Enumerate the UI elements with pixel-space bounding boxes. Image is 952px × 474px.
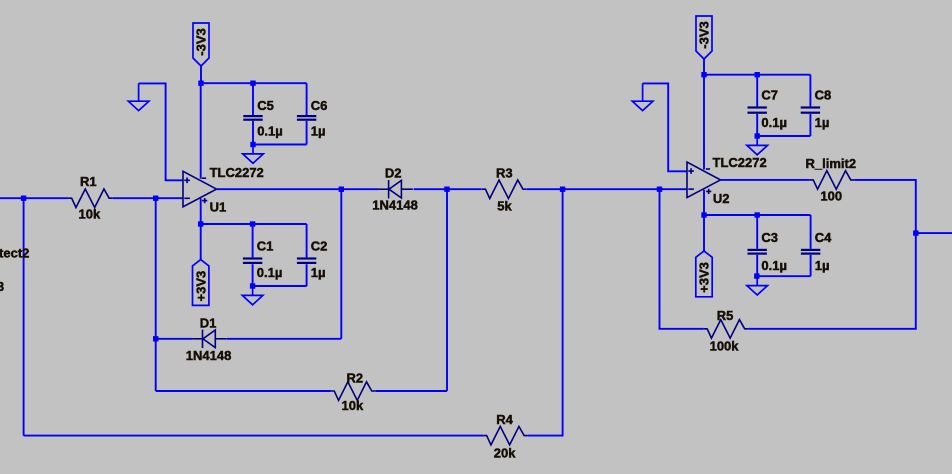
label R_limit2 <box>806 156 857 171</box>
svg-text:0.1µ: 0.1µ <box>761 258 787 273</box>
capacitor C4 <box>801 215 820 276</box>
wire R4 up to U2 input node <box>528 189 563 435</box>
label C7 <box>761 87 778 102</box>
junction R5 tap <box>657 187 662 192</box>
svg-text:R4: R4 <box>496 412 513 427</box>
value 0.1µ <box>257 124 283 139</box>
capacitor C1 <box>243 224 262 286</box>
ground under C1 <box>242 286 263 305</box>
resistor R3 <box>482 180 527 199</box>
junction +3V3 rail right <box>701 212 706 217</box>
diode D1 1N4148 <box>192 330 227 348</box>
op-amp U1 TLC2272 <box>183 171 217 207</box>
junction C7 top <box>755 72 760 77</box>
svg-text:+3V3: +3V3 <box>697 262 712 293</box>
svg-text:0.1µ: 0.1µ <box>257 124 283 139</box>
label C3 <box>761 230 778 245</box>
svg-text:5k: 5k <box>497 199 512 214</box>
wire U2 input node down to R5 <box>660 189 704 329</box>
junction D2 R2 node <box>444 187 449 192</box>
value 10k <box>342 398 364 413</box>
wire R2 to D2 node <box>375 390 447 392</box>
junction input net <box>21 196 26 201</box>
value 0.1µ <box>761 115 787 130</box>
svg-text:C4: C4 <box>815 230 832 245</box>
junction C7 bottom <box>755 133 760 138</box>
svg-text:D1: D1 <box>200 316 217 331</box>
svg-text:C1: C1 <box>257 239 274 254</box>
junction R4 tap <box>560 187 565 192</box>
wire C7 C8 bottom <box>757 135 810 137</box>
wire ground to U1 non-inverting input <box>139 83 183 180</box>
resistor R4 <box>483 426 528 445</box>
value 100 <box>820 189 842 204</box>
svg-text:R2: R2 <box>347 371 364 386</box>
label C1 <box>257 239 274 254</box>
power flag -3V3 right <box>696 16 712 59</box>
ground under C5 <box>243 145 264 164</box>
wire -3V3 rail to C5 C6 <box>201 82 307 84</box>
svg-text:C8: C8 <box>815 87 832 102</box>
svg-text:1N4148: 1N4148 <box>186 348 232 363</box>
label C8 <box>815 87 832 102</box>
svg-text:C6: C6 <box>311 98 328 113</box>
wire R5 to output node <box>748 233 916 329</box>
junction U1 output node <box>339 187 344 192</box>
net label 3 (clipped at edge) <box>0 279 4 294</box>
junction -3V3 rail right <box>701 72 706 77</box>
capacitor C6 <box>297 83 316 144</box>
wire output node down to D1 <box>340 189 342 339</box>
capacitor C2 <box>297 224 316 286</box>
value 1N4148 <box>186 348 232 363</box>
junction C5 top <box>250 81 255 86</box>
svg-text:-3V3: -3V3 <box>697 21 712 48</box>
svg-text:C3: C3 <box>761 230 778 245</box>
junction C1 top <box>250 221 255 226</box>
wire to R2 <box>156 390 331 392</box>
label TLC2272 <box>210 165 264 180</box>
value 0.1µ <box>761 258 787 273</box>
svg-text:D2: D2 <box>385 166 402 181</box>
label R2 <box>347 371 364 386</box>
svg-text:-3V3: -3V3 <box>194 28 209 55</box>
svg-text:10k: 10k <box>342 398 364 413</box>
resistor R_limit2 <box>810 171 855 190</box>
svg-text:R1: R1 <box>80 174 97 189</box>
junction -3V3 rail left <box>198 81 203 86</box>
label R1 <box>80 174 97 189</box>
wire U1 output to D2 <box>217 188 378 190</box>
svg-text:R_limit2: R_limit2 <box>806 156 857 171</box>
svg-text:1µ: 1µ <box>311 124 326 139</box>
junction output node <box>913 230 918 235</box>
capacitor C3 <box>748 215 767 276</box>
wire U2 output to R_limit2 <box>720 179 810 181</box>
ground at U1 non-inverting input <box>128 83 149 110</box>
wire D2 node down to R2 <box>446 189 448 391</box>
wire C5 C6 bottom <box>253 144 307 146</box>
label TLC2272 <box>713 155 767 170</box>
svg-text:1µ: 1µ <box>815 258 830 273</box>
value 10k <box>79 207 101 222</box>
label U1 <box>210 200 227 215</box>
wire +3V3 flag stem right <box>703 215 705 251</box>
svg-text:100k: 100k <box>710 338 740 353</box>
svg-text:1µ: 1µ <box>311 265 326 280</box>
wire -3V3 rail to C7 C8 <box>704 74 810 76</box>
wire U2 V- power pin <box>703 75 705 170</box>
wire C1 C2 bottom <box>253 285 307 287</box>
svg-text:0.1µ: 0.1µ <box>257 265 283 280</box>
capacitor C7 <box>748 75 767 136</box>
svg-text:C2: C2 <box>311 239 328 254</box>
label R5 <box>717 308 734 323</box>
value 5k <box>497 199 512 214</box>
value 1µ <box>311 265 326 280</box>
power flag +3V3 right <box>696 251 712 297</box>
ground under C7 <box>747 136 768 155</box>
wire U1 V+ power pin <box>200 199 202 225</box>
value 0.1µ <box>257 265 283 280</box>
value 1N4148 <box>372 197 418 212</box>
label C4 <box>815 230 832 245</box>
wire U1 V- power pin <box>200 83 202 179</box>
capacitor C8 <box>801 75 820 136</box>
svg-text:R3: R3 <box>496 165 513 180</box>
wire -3V3 flag to rail right <box>703 59 705 75</box>
ground at U2 non-inverting input <box>632 83 653 110</box>
svg-text:100: 100 <box>820 189 842 204</box>
svg-text:U2: U2 <box>713 191 730 206</box>
label C6 <box>311 98 328 113</box>
svg-text:20k: 20k <box>494 445 516 460</box>
wire U2 V+ power pin <box>703 190 705 215</box>
wire -3V3 flag to rail <box>200 66 202 83</box>
wire to D1 cathode <box>156 338 192 340</box>
label U2 <box>713 191 730 206</box>
svg-text:C5: C5 <box>257 98 274 113</box>
svg-text:0.1µ: 0.1µ <box>761 115 787 130</box>
wire +3V3 flag stem left <box>200 224 202 260</box>
junction C5 bottom <box>250 142 255 147</box>
junction D1 cathode node <box>153 336 158 341</box>
label D2 <box>385 166 402 181</box>
label R3 <box>496 165 513 180</box>
junction +3V3 rail left <box>198 221 203 226</box>
op-amp U2 TLC2272 <box>687 162 721 198</box>
power flag -3V3 left <box>193 23 209 66</box>
wire output to right edge <box>916 232 952 234</box>
svg-text:TLC2272: TLC2272 <box>210 165 264 180</box>
junction at U1 input node <box>153 196 158 201</box>
wire U1 input node down to D1 and R2 <box>155 198 157 391</box>
wire input net to R1 <box>0 197 68 199</box>
wire input net down to R4 <box>23 198 25 435</box>
label R4 <box>496 412 513 427</box>
junction C3 bottom <box>754 273 759 278</box>
value 100k <box>710 338 740 353</box>
wire D2 to R3 <box>414 188 482 190</box>
power flag +3V3 left <box>193 260 209 306</box>
resistor R2 <box>331 382 376 401</box>
wire +3V3 rail to C1 C2 <box>201 223 307 225</box>
label C5 <box>257 98 274 113</box>
label D1 <box>200 316 217 331</box>
resistor R1 <box>68 189 113 208</box>
value 1µ <box>815 258 830 273</box>
wire input net to R4 <box>24 435 484 437</box>
diode D2 1N4148 <box>378 180 413 198</box>
value 1µ <box>815 115 830 130</box>
svg-text:TLC2272: TLC2272 <box>713 155 767 170</box>
svg-text:+3V3: +3V3 <box>193 271 208 302</box>
wire C3 C4 bottom <box>757 275 810 277</box>
ground under C3 <box>747 276 768 295</box>
wire R1 to U1 inverting input <box>113 197 183 199</box>
svg-text:3: 3 <box>0 279 4 294</box>
svg-text:10k: 10k <box>79 207 101 222</box>
value 1µ <box>311 124 326 139</box>
junction C1 bottom <box>250 283 255 288</box>
capacitor C5 <box>243 83 262 144</box>
value 20k <box>494 445 516 460</box>
svg-text:1N4148: 1N4148 <box>372 197 418 212</box>
svg-text:R5: R5 <box>717 308 734 323</box>
net label Detect2 (clipped at edge) <box>0 246 29 261</box>
wire +3V3 rail to C3 C4 <box>704 214 811 216</box>
junction C3 top <box>755 212 760 217</box>
label C2 <box>311 239 328 254</box>
wire R_limit2 to output node <box>854 180 916 233</box>
wire D1 anode to output node <box>227 338 341 340</box>
svg-text:1µ: 1µ <box>815 115 830 130</box>
svg-text:U1: U1 <box>210 200 227 215</box>
wire R3 to U2 inverting input <box>527 188 687 190</box>
resistor R5 <box>704 320 749 339</box>
svg-text:C7: C7 <box>761 87 778 102</box>
wire ground to U2 non-inverting input <box>643 83 687 171</box>
svg-text:Detect2: Detect2 <box>0 246 29 261</box>
